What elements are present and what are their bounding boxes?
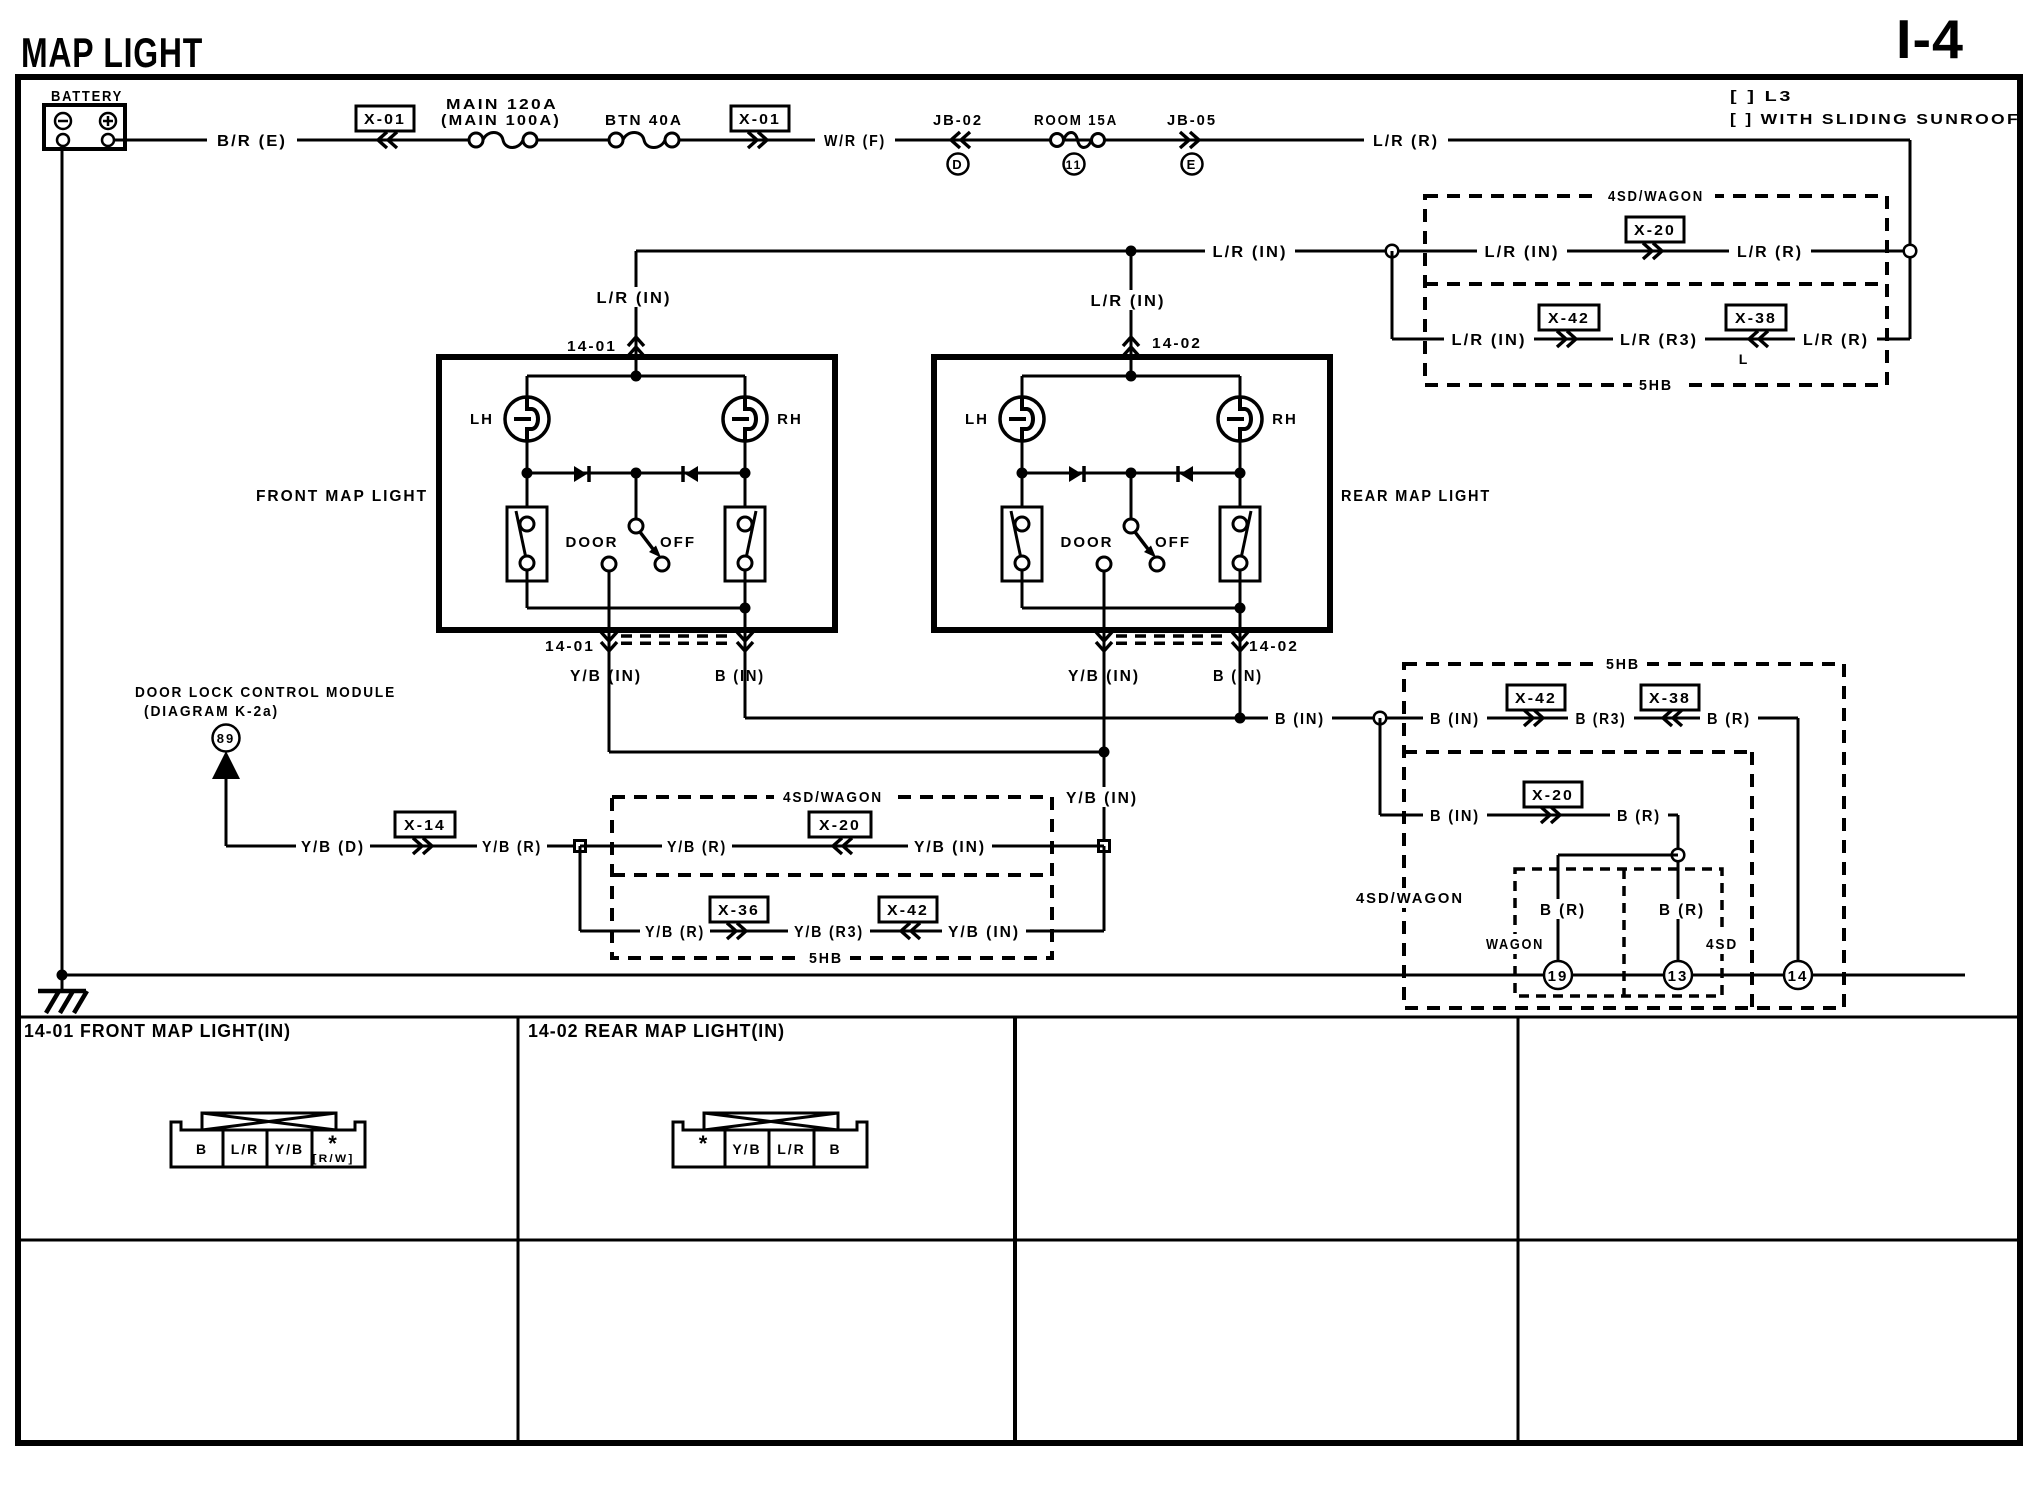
front map light unit box	[439, 357, 835, 630]
wire: DOOR contact drop front	[608, 571, 611, 658]
svg-text:B (IN): B (IN)	[1430, 808, 1480, 825]
switch DOOR contact front	[602, 557, 616, 571]
svg-text:B: B	[196, 1141, 208, 1157]
diode D2 rear (anode right)	[1180, 466, 1193, 482]
wire: battery B+ feed (top rail)	[114, 139, 476, 142]
svg-text:DOOR: DOOR	[1061, 534, 1114, 551]
svg-text:B: B	[829, 1141, 841, 1157]
svg-text:WAGON: WAGON	[1486, 936, 1544, 953]
wire: Y/B X-20 row	[580, 845, 1104, 848]
svg-text:L/R (R): L/R (R)	[1803, 332, 1869, 349]
svg-text:OFF: OFF	[1155, 534, 1191, 551]
ground symbol	[38, 989, 86, 994]
node: split junction	[1672, 849, 1685, 862]
svg-text:I-4: I-4	[1896, 8, 1964, 70]
connector X-20	[833, 838, 852, 854]
svg-text:L/R (R3): L/R (R3)	[1620, 332, 1698, 349]
svg-text:L/R: L/R	[777, 1141, 806, 1157]
wire: centre drop to switch rear	[1130, 473, 1133, 519]
svg-text:Y/B (IN): Y/B (IN)	[914, 839, 986, 856]
svg-text:4SD/WAGON: 4SD/WAGON	[1356, 890, 1464, 907]
switch common pole front	[629, 519, 643, 533]
svg-text:X-38: X-38	[1735, 310, 1777, 327]
wire: link to ground 19	[1558, 854, 1678, 857]
lamp LH rear	[1000, 397, 1044, 441]
svg-text:X-38: X-38	[1649, 690, 1691, 707]
svg-text:D: D	[952, 157, 963, 172]
svg-text:(DIAGRAM K-2a): (DIAGRAM K-2a)	[144, 703, 279, 720]
svg-text:REAR MAP LIGHT: REAR MAP LIGHT	[1341, 488, 1491, 505]
4SD/WAGON dashed option box (middle)	[612, 797, 1052, 958]
wire: LH lamp drop rear	[1021, 376, 1024, 398]
connector X-20	[1643, 243, 1662, 259]
label B/R (E)	[207, 130, 297, 150]
svg-text:L: L	[1739, 351, 1750, 367]
svg-text:L/R (IN): L/R (IN)	[597, 290, 672, 307]
wire: LH switch to bottom rail front	[526, 571, 529, 609]
label L/R (R)	[1795, 329, 1877, 349]
svg-text:[ ] WITH SLIDING SUNROOF: [ ] WITH SLIDING SUNROOF	[1730, 111, 2020, 128]
wire: bottom rail rear	[1022, 607, 1240, 610]
label L/R (R3)	[1613, 329, 1705, 349]
svg-text:FRONT MAP LIGHT: FRONT MAP LIGHT	[256, 488, 428, 505]
wire: B bus	[745, 717, 1798, 720]
svg-text:B (IN): B (IN)	[1275, 711, 1325, 728]
svg-text:14-01: 14-01	[545, 638, 595, 655]
wire: RH lamp drop front	[744, 376, 747, 398]
svg-text:B (R3): B (R3)	[1576, 711, 1627, 728]
connector X-38	[1663, 710, 1682, 726]
wire: rear map light feed	[1130, 251, 1133, 357]
WAGON/4SD dashed box	[1515, 869, 1722, 996]
node: B branch	[1374, 712, 1387, 725]
table divider 3	[1517, 1017, 1520, 1443]
4SD/WAGON dashed option box (top right)	[1425, 196, 1887, 385]
wire: ground bus	[62, 974, 1965, 977]
wire	[679, 139, 1910, 142]
diode D1 rear (anode left)	[1069, 466, 1082, 482]
wire: diode rail rear	[1022, 472, 1240, 475]
diode D2 front (anode right)	[685, 466, 698, 482]
label W/R (F)	[815, 130, 895, 150]
rear map light unit box	[934, 357, 1330, 630]
door switch LH rear	[1021, 473, 1024, 517]
wire: front map light feed	[635, 251, 638, 357]
node: B junction	[1235, 713, 1246, 724]
wire: RH lamp to diode rail front	[744, 441, 747, 473]
label L/R (R)	[1364, 130, 1448, 150]
svg-text:B (IN): B (IN)	[715, 668, 765, 685]
svg-text:X-01: X-01	[739, 111, 781, 128]
svg-text:X-20: X-20	[819, 817, 861, 834]
wire: drop to X-36 row	[579, 846, 582, 931]
svg-text:W/R (F): W/R (F)	[824, 133, 886, 150]
node: diode rail junctions rear	[1017, 468, 1028, 479]
wire: rear Y/B (IN)	[1062, 665, 1146, 685]
svg-text:X-36: X-36	[718, 902, 760, 919]
svg-text:B (R): B (R)	[1707, 711, 1751, 728]
wire	[537, 139, 616, 142]
svg-text:B (R): B (R)	[1540, 902, 1586, 919]
svg-text:Y/B (R3): Y/B (R3)	[794, 924, 864, 941]
node: Y/B junction	[1099, 747, 1110, 758]
wire: module drop	[225, 779, 228, 846]
svg-text:JB-02: JB-02	[933, 112, 983, 129]
connector 14-01 exits	[601, 632, 617, 651]
lamp RH front	[723, 397, 767, 441]
wire: entry inside front box	[635, 357, 638, 376]
ground point 13	[1664, 961, 1692, 989]
lamp RH rear	[1218, 397, 1262, 441]
svg-text:5HB: 5HB	[809, 950, 843, 967]
wire: diode rail front	[527, 472, 745, 475]
svg-text:Y/B (R): Y/B (R)	[482, 839, 542, 856]
svg-text:X-42: X-42	[1515, 690, 1557, 707]
svg-text:19: 19	[1548, 968, 1569, 985]
connector X-01 (right)	[748, 132, 767, 148]
connector X-20	[1541, 807, 1560, 823]
wire: B X-42 row	[1423, 708, 1487, 728]
wire: 5HB L/R row	[1392, 338, 1910, 341]
svg-text:14-02 REAR MAP LIGHT(IN): 14-02 REAR MAP LIGHT(IN)	[528, 1021, 785, 1041]
connector 14-01 entry	[628, 337, 644, 356]
wire: B(R) drop	[1677, 815, 1680, 961]
svg-text:X-42: X-42	[1548, 310, 1590, 327]
label L/R (IN)	[1205, 241, 1295, 261]
node: top junction front	[631, 371, 642, 382]
svg-text:X-01: X-01	[364, 111, 406, 128]
wire: L/R (IN) rail	[636, 250, 1910, 253]
svg-text:L/R (IN): L/R (IN)	[1213, 244, 1288, 261]
switch common pole rear	[1124, 519, 1138, 533]
label L/R (IN)	[1477, 241, 1567, 261]
svg-text:14-02: 14-02	[1249, 638, 1299, 655]
svg-text:14: 14	[1788, 968, 1809, 985]
svg-text:11: 11	[1066, 158, 1083, 172]
svg-text:L/R (IN): L/R (IN)	[1091, 293, 1166, 310]
svg-text:ROOM 15A: ROOM 15A	[1034, 112, 1118, 129]
node: rear feed tap	[1126, 246, 1137, 257]
svg-text:5HB: 5HB	[1606, 656, 1640, 673]
wire: LH lamp to diode rail rear	[1021, 441, 1024, 473]
svg-text:4SD: 4SD	[1706, 936, 1738, 953]
svg-text:89: 89	[217, 731, 235, 746]
wire: B(R) drop to ground 14	[1797, 718, 1800, 961]
wire: battery negative drop	[61, 146, 64, 991]
svg-text:5HB: 5HB	[1639, 377, 1673, 394]
node: Y/B square junction left	[575, 841, 586, 852]
wire: B out drop front	[744, 608, 747, 658]
svg-text:E: E	[1187, 157, 1198, 172]
svg-text:BTN 40A: BTN 40A	[605, 112, 683, 129]
svg-text:Y/B: Y/B	[275, 1141, 304, 1157]
wire: RH switch to bottom rail rear	[1239, 571, 1242, 609]
5HB dashed option box (right)	[1404, 664, 1844, 1008]
connector 14-02 exits	[1096, 632, 1112, 651]
wire: drop to 5HB row	[1391, 251, 1394, 339]
svg-text:X-20: X-20	[1634, 222, 1676, 239]
svg-text:B (IN): B (IN)	[1430, 711, 1480, 728]
svg-text:[R/W]: [R/W]	[313, 1153, 355, 1165]
table mid horizontal	[18, 1239, 2020, 1242]
wire: Y/B (D) row	[226, 845, 580, 848]
svg-text:Y/B (R): Y/B (R)	[667, 839, 727, 856]
node: Y/B square junction right	[1099, 841, 1110, 852]
wire: front B (IN)	[708, 665, 772, 685]
switch DOOR contact rear	[1097, 557, 1111, 571]
svg-text:Y/B (IN): Y/B (IN)	[570, 668, 642, 685]
svg-text:Y/B: Y/B	[732, 1141, 761, 1157]
svg-text:L/R (IN): L/R (IN)	[1485, 244, 1560, 261]
node: bottom rail junction rear	[1235, 603, 1246, 614]
svg-text:BATTERY: BATTERY	[51, 88, 123, 105]
label L/R (IN)	[1444, 329, 1534, 349]
wire: front Y/B run to rear	[609, 751, 1104, 754]
connector X-38	[1749, 331, 1768, 347]
svg-text:B (IN): B (IN)	[1213, 668, 1263, 685]
door switch LH front	[526, 473, 529, 517]
svg-text:*: *	[699, 1131, 710, 1156]
svg-text:LH: LH	[470, 411, 494, 428]
diode D1 front (anode left)	[574, 466, 587, 482]
wire: DOOR contact drop rear	[1103, 571, 1106, 658]
svg-text:4SD/WAGON: 4SD/WAGON	[1608, 188, 1704, 205]
svg-text:X-14: X-14	[404, 817, 446, 834]
table top separator	[18, 1016, 2020, 1019]
svg-text:Y/B (IN): Y/B (IN)	[1066, 790, 1138, 807]
svg-text:Y/B (D): Y/B (D)	[301, 839, 365, 856]
node: diode rail junctions front	[522, 468, 533, 479]
wire: centre drop to switch front	[635, 473, 638, 519]
connector 14-02 pin view	[704, 1113, 838, 1130]
svg-text:JB-05: JB-05	[1167, 112, 1217, 129]
svg-text:MAIN 120A: MAIN 120A	[446, 96, 558, 113]
node: battery ground junction	[57, 970, 68, 981]
table divider 2	[1013, 1017, 1017, 1443]
wire: RH lamp to diode rail rear	[1239, 441, 1242, 473]
node: branch to 5HB row	[1386, 245, 1399, 258]
switch OFF contact front	[655, 557, 669, 571]
wire: B X-20 branch	[1379, 718, 1382, 815]
svg-text:OFF: OFF	[660, 534, 696, 551]
svg-text:X-42: X-42	[887, 902, 929, 919]
wire: inner top rail rear	[1022, 375, 1240, 378]
wire: LH lamp to diode rail front	[526, 441, 529, 473]
label B (IN)	[1268, 708, 1332, 728]
svg-text:13: 13	[1668, 968, 1689, 985]
svg-text:MAP LIGHT: MAP LIGHT	[21, 29, 203, 76]
svg-text:DOOR LOCK CONTROL MODULE: DOOR LOCK CONTROL MODULE	[135, 684, 396, 701]
wire: Y/B X-36/X-42 row	[580, 930, 1104, 933]
node: junction at right drop	[1904, 245, 1917, 258]
svg-text:14-02: 14-02	[1152, 335, 1202, 352]
switch lever w/ arrow front	[640, 532, 656, 553]
svg-text:RH: RH	[777, 411, 803, 428]
svg-text:LH: LH	[965, 411, 989, 428]
svg-text:X-20: X-20	[1532, 787, 1574, 804]
door switch RH front	[744, 473, 747, 517]
connector X-36	[727, 923, 746, 939]
switch OFF contact rear	[1150, 557, 1164, 571]
node: top junction rear	[1126, 371, 1137, 382]
connector 14-01 pin view	[202, 1113, 336, 1130]
switch lever w/ arrow rear	[1135, 532, 1151, 553]
svg-text:RH: RH	[1272, 411, 1298, 428]
connector X-14	[413, 838, 432, 854]
table divider 1	[517, 1017, 520, 1443]
ground point 19	[1544, 961, 1572, 989]
connector X-42	[901, 923, 920, 939]
label L/R (R)	[1729, 241, 1811, 261]
svg-text:14-01 FRONT MAP LIGHT(IN): 14-01 FRONT MAP LIGHT(IN)	[24, 1021, 291, 1041]
connector X-42	[1557, 331, 1576, 347]
svg-text:L/R (IN): L/R (IN)	[1452, 332, 1527, 349]
door switch RH rear	[1239, 473, 1242, 517]
wire: rear B (IN)	[1206, 665, 1270, 685]
svg-text:Y/B (R): Y/B (R)	[645, 924, 705, 941]
svg-text:DOOR: DOOR	[566, 534, 619, 551]
wire: front Y/B (IN)	[564, 665, 648, 685]
connector X-01 (left)	[378, 132, 397, 148]
svg-text:L/R (R): L/R (R)	[1373, 133, 1439, 150]
wire: right feed drop	[1909, 140, 1912, 339]
wire: entry inside rear box	[1130, 357, 1133, 376]
connector X-42	[1524, 710, 1543, 726]
svg-text:L/R (R): L/R (R)	[1737, 244, 1803, 261]
ground point 14	[1784, 961, 1812, 989]
wire: RH switch to bottom rail front	[744, 571, 747, 609]
svg-text:[ ] L3: [ ] L3	[1730, 88, 1793, 105]
connector name boxes (top layer)	[356, 106, 414, 131]
wire: inner top rail front	[527, 375, 745, 378]
svg-text:14-01: 14-01	[567, 338, 617, 355]
wire: bottom rail front	[527, 607, 745, 610]
svg-text:(MAIN 100A): (MAIN 100A)	[441, 112, 561, 129]
node: bottom rail junction front	[740, 603, 751, 614]
svg-text:L/R: L/R	[231, 1141, 260, 1157]
wire: LH lamp drop front	[526, 376, 529, 398]
svg-text:B/R (E): B/R (E)	[217, 133, 287, 150]
wire: B out drop rear	[1239, 608, 1242, 658]
svg-text:B (R): B (R)	[1659, 902, 1705, 919]
svg-text:Y/B (IN): Y/B (IN)	[948, 924, 1020, 941]
wire: LH switch to bottom rail rear	[1021, 571, 1024, 609]
wire: RH lamp drop rear	[1239, 376, 1242, 398]
connector 14-02 entry	[1123, 337, 1139, 356]
lamp LH front	[505, 397, 549, 441]
svg-text:4SD/WAGON: 4SD/WAGON	[783, 789, 883, 806]
svg-text:B (R): B (R)	[1617, 808, 1661, 825]
